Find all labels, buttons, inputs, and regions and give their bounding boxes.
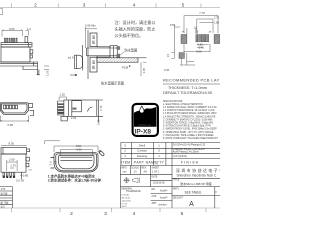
svg-text:4: 4 (133, 3, 136, 8)
view A: side view with SMT pins (top-left) (0, 37, 40, 75)
svg-text:2.03: 2.03 (71, 116, 77, 120)
panel mount: PCB hatched bar (97, 58, 138, 62)
svg-text:CHK.: CHK. (152, 196, 158, 198)
IP-X8 logo (133, 104, 158, 136)
svg-text:SPECIFICATIONS:: SPECIFICATIONS: (163, 100, 183, 103)
svg-text:8.60: 8.60 (196, 49, 202, 53)
frame top border (0, 3, 220, 7)
svg-text:1 OF 1: 1 OF 1 (152, 172, 160, 174)
SPECIFICATIONS block (163, 100, 219, 140)
frame top zone numbers (34, 3, 185, 8)
svg-text:-30 ±0.50: -30 ±0.50 (122, 200, 132, 202)
view C top band (1, 148, 27, 154)
view C dim 1.70 (10, 167, 14, 169)
view B: front view of receptacle (1, 103, 29, 115)
svg-text:DR.: DR. (152, 189, 156, 191)
svg-text:LCP (UL94V): LCP (UL94V) (173, 155, 187, 158)
svg-text:1.20: 1.20 (60, 93, 66, 97)
panel mount: right dim (141, 62, 147, 76)
view A right tabs (30, 50, 33, 54)
view C dim 2.60 (7, 160, 17, 171)
svg-text:0.40: 0.40 (199, 46, 205, 50)
svg-text:1.3 INSULATION RESISTANCE: 100: 1.3 INSULATION RESISTANCE: 100MΩ MIN. 25… (163, 112, 217, 115)
view A SMT pins comb (5, 38, 18, 42)
svg-text:3. INSERTION FORCE: 3.0kgf MAX: 3. INSERTION FORCE: 3.0kgf MAX. 0.8kgf M… (163, 122, 214, 125)
svg-text:MAT'L: MAT'L (173, 188, 180, 191)
frame bottom border (0, 208, 220, 212)
svg-text:2019.08.08: 2019.08.08 (153, 183, 165, 185)
svg-text:0 ±0.30: 0 ±0.30 (122, 194, 130, 196)
svg-text:DEFAULT TOLERANCE±0.05: DEFAULT TOLERANCE±0.05 (163, 91, 212, 95)
view E dim 1.20 (59, 97, 66, 100)
view E: small cross-section (middle) (58, 100, 103, 123)
svg-text:5: 5 (182, 3, 185, 8)
svg-text:1.05: 1.05 (142, 68, 146, 74)
solder arrows (183, 31, 185, 33)
svg-text:3: 3 (104, 211, 107, 217)
svg-text:4: 4 (133, 211, 136, 217)
svg-text:2: 2 (34, 3, 37, 8)
svg-text:DATE: DATE (152, 176, 158, 179)
svg-text:DIECAST: DIECAST (173, 196, 184, 199)
svg-text:TITLE: TITLE (173, 179, 180, 181)
svg-text:SCALE: SCALE (131, 167, 139, 170)
svg-text:5: 5 (181, 211, 184, 217)
view D dim 6.90 (60, 150, 92, 156)
svg-text:6.90: 6.90 (76, 147, 82, 151)
svg-text:4-0.80: 4-0.80 (20, 173, 28, 177)
PCB layout dims (171, 16, 218, 66)
svg-text:0.55: 0.55 (170, 23, 176, 27)
bottom-left revision table (0, 187, 12, 208)
svg-text:防水Micro USB 5P 母座: 防水Micro USB 5P 母座 (180, 181, 212, 186)
svg-text:1.8: 1.8 (54, 160, 58, 164)
title block left cells text (121, 167, 168, 207)
svg-text:8.30: 8.30 (9, 142, 15, 146)
panel mount illustration: upper panel wall (90, 33, 97, 72)
svg-text:THICKNESS: T=1.0mm: THICKNESS: T=1.0mm (168, 86, 207, 90)
svg-text:1.9: 1.9 (194, 26, 198, 30)
pads row (181, 35, 220, 44)
svg-text:2: 2 (70, 211, 73, 217)
svg-text:INFO: INFO (121, 168, 127, 170)
svg-text:ITEM: ITEM (121, 161, 130, 165)
view A shield tab (25, 37, 28, 43)
svg-text:3: 3 (83, 3, 86, 8)
svg-text:2.60: 2.60 (9, 157, 15, 161)
panel mount illustration: arrow (70, 74, 77, 76)
svg-text:面: 面 (92, 61, 95, 65)
svg-text:SHEET: SHEET (152, 168, 160, 170)
svg-text:Contact: Contact (137, 149, 147, 153)
svg-text:2-0.30: 2-0.30 (16, 179, 24, 183)
svg-text:ø1.9: ø1.9 (68, 55, 74, 59)
svg-text:TOLERANCE: TOLERANCE (126, 190, 141, 193)
svg-text:2.防水测试条件：水深1.5米-30分钟: 2.防水测试条件：水深1.5米-30分钟 (48, 178, 102, 183)
view A dimension 9.60 (2, 30, 29, 37)
svg-text:6. OPERATING TEMP: -40°C TO +8: 6. OPERATING TEMP: -40°C TO +85°C RANGE (163, 131, 214, 134)
svg-text:AndyPi: AndyPi (160, 197, 168, 200)
svg-text:0.45: 0.45 (164, 68, 170, 72)
svg-text:AndyPi: AndyPi (160, 190, 168, 193)
svg-text:1.4 DIELECTRIC STRENGTH: 100VA: 1.4 DIELECTRIC STRENGTH: 100VAC/1 MINUTE (163, 115, 216, 118)
frame left zone box (0, 9, 3, 15)
svg-text:2. DURABILITY (MATING CYCLES):: 2. DURABILITY (MATING CYCLES): 5,000 MIN… (163, 118, 213, 121)
svg-text:1.70: 1.70 (10, 164, 16, 168)
svg-text:IP-X8: IP-X8 (135, 129, 152, 136)
svg-text:Q'TY: Q'TY (156, 161, 165, 165)
view B dim 6.90 (1, 116, 29, 123)
view D dim 8.50 top (45, 141, 98, 152)
svg-text:深圳市协创达电子有: 深圳市协创达电子有 (176, 168, 220, 173)
panel mount: connector cross-section body (87, 46, 121, 58)
svg-text:1. ELECTRICAL CHARACTERISTICS:: 1. ELECTRICAL CHARACTERISTICS: (163, 103, 203, 106)
view A flange end box (33, 62, 35, 66)
view A main body (1, 47, 30, 62)
svg-text:RECOMMENDED PCB LAY: RECOMMENDED PCB LAY (163, 77, 220, 82)
svg-text:防水垫圈示意图: 防水垫圈示意图 (101, 81, 125, 86)
svg-text:APP.: APP. (152, 202, 157, 205)
view C: side view (bottom-left) (1, 148, 30, 180)
view D screw icon at 45deg (98, 150, 104, 156)
chinese note block (top middle) (115, 19, 156, 38)
svg-text:PCB: PCB (122, 65, 128, 69)
view C pins (3, 172, 15, 178)
svg-text:1.5: 1.5 (49, 161, 53, 165)
view C main body (1, 154, 26, 172)
svg-text:A: A (189, 201, 194, 208)
svg-text:6.90: 6.90 (8, 123, 14, 127)
svg-text:Shenzhen Xiecxinda Tech C: Shenzhen Xiecxinda Tech C (177, 173, 218, 177)
svg-text:5. WATER PROOF LEVEL: IPX8 30M: 5. WATER PROOF LEVEL: IPX8 30Min/1.5m DE… (163, 128, 217, 131)
svg-text:7. PACKAGING: TAPE & REEL 1,50: 7. PACKAGING: TAPE & REEL 1,500 PCS/REEL (163, 134, 215, 137)
svg-text:9.60: 9.60 (9, 27, 15, 31)
svg-text:5.90 Min: 5.90 Min (85, 24, 96, 28)
view C top width dim (1, 144, 27, 146)
svg-text:7.70: 7.70 (199, 11, 205, 15)
svg-text:1.2: 1.2 (27, 27, 31, 31)
svg-text:±0.2°: ±0.2° (122, 206, 127, 208)
svg-text:Housing: Housing (137, 154, 148, 158)
svg-text:Shell: Shell (139, 144, 146, 148)
svg-text:注：设计时，请注意公: 注：设计时，请注意公 (115, 19, 156, 25)
svg-text:1.76: 1.76 (99, 105, 103, 111)
frame bottom zone numbers (70, 211, 184, 217)
view C right small tabs top (27, 149, 30, 152)
svg-text:公头插不到位。: 公头插不到位。 (115, 32, 144, 38)
view B right bracket (29, 104, 34, 116)
materials table (121, 142, 220, 165)
svg-text:mm: mm (123, 172, 127, 174)
svg-text:0.80: 0.80 (97, 119, 101, 125)
panel mount: gasket marks (117, 46, 121, 50)
title block (120, 166, 220, 209)
view B contacts (3, 105, 17, 109)
svg-text:SUS304+(CH Ni Plating)+0.25: SUS304+(CH Ni Plating)+0.25 (173, 144, 206, 147)
svg-text:1.2 CONTACT RESISTANCE: 30 mΩ: 1.2 CONTACT RESISTANCE: 30 mΩ MAX. LLCR (163, 109, 215, 112)
svg-text:Au/Ni Plating C=0.25mm: Au/Ni Plating C=0.25mm (173, 151, 199, 154)
projection symbols (123, 177, 139, 183)
svg-text:SEE TABLE: SEE TABLE (184, 190, 201, 194)
svg-text:PART NAME: PART NAME (134, 161, 157, 165)
svg-text:4. EXTRACTION FORCE: 0.8kgf-3.: 4. EXTRACTION FORCE: 0.8kgf-3.0kgf (TYP.… (163, 125, 211, 128)
svg-text:1.85: 1.85 (214, 20, 220, 24)
svg-text:FINISH: FINISH (181, 161, 199, 165)
panel mount illustration: plug tip (75, 30, 88, 79)
svg-text:1.1 RATED VOLTAGE: 30VDC CURRE: 1.1 RATED VOLTAGE: 30VDC CURRENT: 0.5-1.… (163, 106, 217, 109)
svg-text:2.75: 2.75 (214, 16, 220, 20)
svg-text:1.05: 1.05 (45, 70, 49, 76)
svg-text:防水垫圈: 防水垫圈 (125, 48, 138, 53)
svg-text:X: X (215, 190, 217, 194)
svg-text:chenbin: chenbin (159, 205, 168, 207)
svg-text:REV.: REV. (142, 168, 148, 170)
svg-text:30 ±0.05: 30 ±0.05 (122, 197, 131, 199)
view D: oval mating face (51, 153, 99, 172)
svg-text:头插入时的深度，防止: 头插入时的深度，防止 (115, 26, 156, 32)
view A body top band (1, 43, 32, 47)
view A rotated dim 1.05 (right of step) (44, 66, 49, 70)
svg-text:1/T0: 1/T0 (1, 189, 6, 191)
lone pad below (179, 53, 184, 59)
panel mount: dim 5.90 Min (85, 27, 97, 48)
view A step extension right (23, 66, 38, 70)
svg-text:8. ROHS COMPLIANT. HALOGEN FRE: 8. ROHS COMPLIANT. HALOGEN FREE PRODUCT (163, 137, 219, 140)
svg-text:面: 面 (92, 36, 95, 40)
svg-text:0° ±3°: 0° ±3° (122, 203, 128, 205)
svg-text:1.5: 1.5 (166, 53, 170, 57)
svg-text:30 Min/1.5m: 30 Min/1.5m (138, 125, 151, 127)
view A bottom flange plate (0, 62, 38, 66)
